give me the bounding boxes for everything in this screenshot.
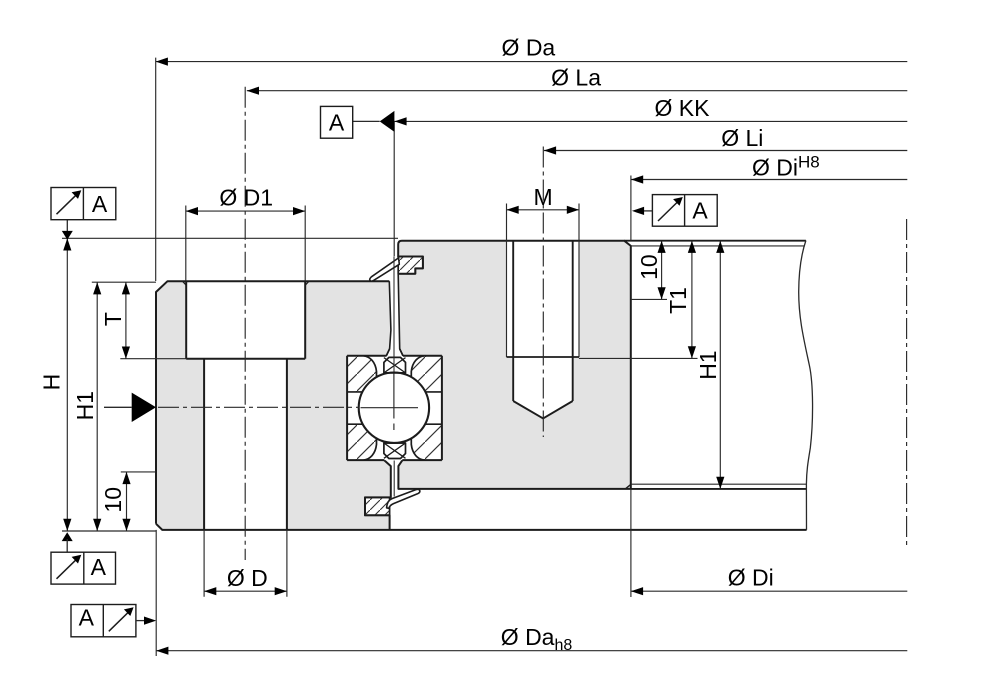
dimension T: line and arrows <box>122 282 130 359</box>
tapped hole M: pilot hole walls <box>513 241 573 401</box>
svg-text:A: A <box>79 605 95 631</box>
plug seat edge lines <box>384 373 406 443</box>
dimension D: line, arrows, extensions <box>204 530 287 597</box>
inner ring / gap right edge (thin) <box>398 274 403 356</box>
tapped hole centreline <box>542 147 544 438</box>
dimension H: line and arrows <box>63 238 71 531</box>
svg-text:A: A <box>329 110 345 136</box>
dimension Di bottom: line and arrow <box>631 489 907 597</box>
inner ring (right sectioned ring, gray) <box>398 241 631 489</box>
inner ring bottom face line extending right (elevation) <box>631 488 807 490</box>
dimension H1 left: line and arrows <box>93 282 101 531</box>
raceway hatch top-left <box>347 356 376 392</box>
outer ring top extension line <box>92 281 156 283</box>
dimension KK: line and arrow <box>394 117 907 125</box>
outer ring mounting hole: counterbore D1 walls and bottom <box>186 281 305 359</box>
svg-text:Ø D1: Ø D1 <box>219 184 273 210</box>
top face extension line (datum A surface) <box>62 237 398 239</box>
svg-text:Ø Li: Ø Li <box>721 125 763 151</box>
svg-text:Ø KK: Ø KK <box>655 95 711 121</box>
dimension H1 right: line and arrows <box>716 241 724 489</box>
svg-text:H1: H1 <box>72 391 98 420</box>
top seal retainer (hatched) <box>398 257 423 274</box>
filler plug top (crossed) <box>384 357 406 373</box>
svg-text:10: 10 <box>100 487 126 513</box>
inner ring top face line extending right (elevation) <box>624 240 806 242</box>
dimension DiH8: line and arrow <box>631 175 907 240</box>
bearing axis centreline (right) <box>906 219 908 548</box>
datum A frame top-left with leader <box>51 188 116 240</box>
seal diameter extension line (KK datum line) <box>393 121 395 256</box>
raceway shoulder fillets <box>364 356 425 460</box>
svg-text:A: A <box>92 191 108 217</box>
dimension T1: line, arrows, extension <box>579 241 698 359</box>
svg-text:H: H <box>38 374 64 391</box>
inner ring top land line <box>631 245 805 247</box>
thin centreline through gap and plug <box>393 257 395 497</box>
bottom face extension line (left) <box>62 530 156 532</box>
raceway hatch bottom-left <box>347 424 376 460</box>
svg-text:H1: H1 <box>695 350 721 379</box>
svg-text:A: A <box>91 554 107 580</box>
inner ring bottom land line <box>631 483 806 485</box>
raceway hatch top-right <box>411 356 442 392</box>
datum A frame right with leader <box>632 195 717 227</box>
counterbore edge chamfer marks <box>183 281 309 285</box>
datum A frame (top, by KK arrow) <box>321 106 380 138</box>
dimension 10 right: line, arrows, extension <box>631 241 667 300</box>
counterbore bottom extension line <box>120 358 186 360</box>
bolt hole centreline (left) <box>244 87 246 560</box>
inner ring bottom chamfer <box>625 484 631 489</box>
datum A frame bottom-left upper with leader <box>51 532 116 584</box>
ball raceway square: white field <box>347 356 442 460</box>
svg-text:M: M <box>534 184 553 210</box>
dimension D1: line, arrows, extensions <box>186 206 305 282</box>
dimension 10 left: line, arrows, extension <box>121 472 156 531</box>
svg-text:10: 10 <box>636 254 662 280</box>
dimension Da: line and arrow <box>156 58 908 282</box>
svg-text:Ø D: Ø D <box>227 565 268 591</box>
bottom seal lip <box>387 489 420 508</box>
svg-text:Ø Di: Ø Di <box>728 565 774 591</box>
raceway hatch bottom-right <box>411 424 442 460</box>
dimension M: line, arrows, extensions <box>507 204 580 241</box>
ball <box>359 373 429 443</box>
bottom seal retainer (hatched) <box>365 497 390 515</box>
datum A triangle on KK line <box>380 111 395 132</box>
tapped hole M: drill point cone <box>513 401 573 418</box>
main horizontal centreline with big section arrow <box>104 393 359 422</box>
raceway square outline <box>347 356 442 460</box>
dimension Li: line and arrow <box>544 146 907 154</box>
top seal lip <box>370 258 400 281</box>
raceway split lines <box>347 392 442 424</box>
tapped hole M: thread crest thin lines <box>507 241 580 357</box>
dimension La: line and arrow <box>247 87 908 95</box>
dimension Dah8 bottom: line and arrow <box>156 530 907 656</box>
svg-text:Ø Da: Ø Da <box>502 35 556 61</box>
break line (wavy) at right <box>799 241 813 530</box>
svg-text:T1: T1 <box>665 287 691 314</box>
outer ring / gap left edge (thin) <box>386 281 391 356</box>
ball centre cross <box>361 373 419 430</box>
svg-text:Ø La: Ø La <box>551 65 601 91</box>
svg-text:T: T <box>100 312 126 326</box>
datum A frame bottom-left lower with leader <box>71 605 156 637</box>
tapped hole M: thread end line <box>507 356 580 358</box>
svg-text:A: A <box>692 198 708 224</box>
filler plug bottom (crossed) <box>384 443 406 459</box>
outer ring (left sectioned ring, gray) <box>156 281 807 530</box>
plug flare lines above and below square <box>386 349 403 356</box>
outer ring through hole D walls <box>204 359 287 530</box>
